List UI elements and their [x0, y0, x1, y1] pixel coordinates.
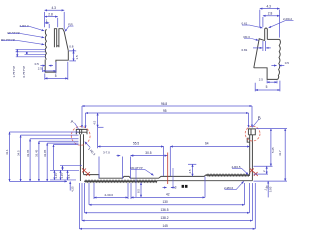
- scalloped right edge: [278, 39, 281, 79]
- dim 95: [85, 113, 87, 128]
- dim 64: [169, 147, 171, 177]
- dim 4.3 top: [260, 10, 280, 38]
- right wall: [250, 135, 253, 181]
- left stack dim 32.95: [47, 142, 78, 144]
- fin pitch extension lines: [16, 49, 46, 57]
- dim 96.8 top: [81, 106, 83, 128]
- svg-text:136.5: 136.5: [161, 208, 169, 212]
- svg-text:64: 64: [205, 141, 209, 145]
- extension lines mid web: [136, 168, 173, 197]
- dim 2.8: [262, 17, 264, 27]
- svg-text:5: 5: [266, 85, 268, 89]
- dim 41.7 right outer: [284, 129, 286, 182]
- svg-text:145: 145: [163, 224, 169, 228]
- svg-text:1.5: 1.5: [75, 55, 79, 60]
- left stack dim 33.65: [30, 138, 78, 140]
- svg-text:5: 5: [55, 74, 57, 78]
- dim 2 right: [254, 173, 269, 175]
- svg-text:130: 130: [163, 200, 169, 204]
- svg-text:34.5: 34.5: [16, 150, 20, 156]
- dim 4.3 top: [45, 12, 65, 30]
- svg-text:4.3: 4.3: [52, 6, 57, 10]
- dim 8.5 vertical small: [140, 183, 142, 198]
- right side stub top: [256, 128, 287, 130]
- right wall hook: [247, 138, 250, 142]
- red centre extension line: [167, 153, 169, 185]
- dim 4.5 small vertical: [97, 113, 99, 127]
- top chamfer F.R corner: [61, 29, 64, 32]
- dim 5.25 right: [254, 165, 273, 167]
- dim 136.5: [85, 183, 250, 213]
- svg-text:2.8: 2.8: [48, 13, 53, 17]
- left stack dim 41.1: [10, 131, 79, 133]
- dim 4.5b: [67, 170, 69, 180]
- svg-text:138.2: 138.2: [161, 216, 169, 220]
- svg-text:R0.25TYP: R0.25TYP: [1, 38, 15, 42]
- svg-text:4.3: 4.3: [267, 4, 272, 8]
- dim 30.5: [131, 155, 168, 157]
- left stack dim 33.45: [39, 140, 79, 142]
- dim 1.45: [60, 170, 62, 180]
- left stack dim 34.5: [21, 134, 79, 136]
- svg-text:55.5: 55.5: [133, 141, 139, 145]
- svg-text:2.5: 2.5: [259, 78, 264, 82]
- scalloped left edge: [45, 29, 46, 59]
- svg-text:3.95: 3.95: [269, 186, 273, 192]
- dim 5 bottom: [255, 81, 280, 92]
- weld marks right (red): [250, 168, 258, 176]
- dim 2.8: [57, 18, 59, 27]
- svg-text:2-R0.3: 2-R0.3: [20, 24, 29, 28]
- svg-text:0.75TYP: 0.75TYP: [22, 66, 26, 78]
- svg-text:1: 1: [46, 19, 48, 23]
- finger 1: [54, 29, 56, 48]
- svg-text:0.5: 0.5: [35, 62, 40, 66]
- finger: [265, 28, 268, 41]
- left slope edge: [254, 39, 265, 68]
- svg-text:8.5: 8.5: [137, 189, 141, 193]
- detail circle A: [71, 126, 90, 145]
- web top with steps: [84, 175, 207, 179]
- svg-text:32.95: 32.95: [43, 149, 47, 157]
- dim 55.5: [98, 127, 164, 176]
- dim 4.25 below: [69, 181, 71, 190]
- svg-text:2.5: 2.5: [38, 67, 43, 71]
- weld marks left (red): [82, 168, 90, 176]
- svg-text:A: A: [71, 119, 74, 124]
- small left dims rows: [60, 165, 82, 167]
- svg-text:42: 42: [166, 192, 170, 196]
- left stack bottom reference line: [10, 180, 68, 182]
- serrated web top right segment: [207, 174, 250, 176]
- svg-text:2-30.0: 2-30.0: [105, 193, 114, 197]
- web bottom straight right segment: [157, 180, 252, 182]
- dim 2.5 vertical: [188, 163, 196, 165]
- dim 42: [131, 196, 205, 198]
- svg-text:4.25: 4.25: [70, 186, 74, 192]
- right wall cap: [248, 129, 255, 135]
- svg-text:33.45: 33.45: [35, 149, 39, 157]
- dim 0.75TYP: [26, 52, 28, 55]
- dim 5 bottom: [45, 62, 68, 80]
- left wall: [80, 134, 83, 181]
- svg-text:96.8: 96.8: [161, 102, 167, 106]
- left stack dim small 6th: [54, 144, 79, 146]
- svg-text:33.65: 33.65: [26, 149, 30, 157]
- right bottom stub: [254, 180, 288, 182]
- svg-text:3.45: 3.45: [54, 173, 58, 179]
- detail circle B: [245, 126, 260, 141]
- svg-text:3-7.0: 3-7.0: [103, 151, 110, 155]
- svg-text:R0.5TYP: R0.5TYP: [8, 31, 20, 35]
- svg-text:4.5: 4.5: [92, 120, 96, 124]
- main profile: left wall cap: [76, 129, 87, 134]
- dim 1.75TYP: [16, 49, 18, 57]
- bottom step shelf: [254, 68, 278, 80]
- svg-text:0.8: 0.8: [69, 44, 74, 48]
- dim 130: [89, 183, 245, 205]
- dim 1: [48, 24, 50, 28]
- dim 1.5 vertical: [73, 51, 75, 61]
- svg-text:2.8: 2.8: [268, 12, 273, 16]
- top shelf right of finger: [267, 38, 279, 40]
- svg-text:30.5: 30.5: [145, 151, 151, 155]
- svg-text:0.5: 0.5: [285, 61, 290, 65]
- svg-text:4.5: 4.5: [67, 174, 71, 178]
- svg-text:5.25: 5.25: [271, 147, 275, 153]
- svg-text:95: 95: [163, 109, 167, 113]
- svg-text:1.45: 1.45: [60, 173, 64, 179]
- dim 3.95: [267, 181, 269, 197]
- svg-text:41.1: 41.1: [5, 149, 9, 155]
- finger 2: [57, 29, 61, 48]
- dim 145: [79, 183, 255, 229]
- dim 3.45: [53, 170, 55, 180]
- svg-text:0.81: 0.81: [242, 48, 248, 52]
- svg-text:2.5: 2.5: [188, 169, 192, 173]
- svg-text:41.7: 41.7: [278, 150, 282, 156]
- dim 138.2: [82, 183, 252, 221]
- svg-text:1.75TYP: 1.75TYP: [12, 66, 16, 78]
- serrated web bottom left segment: [85, 181, 158, 183]
- right step: [45, 51, 68, 72]
- right slope edge: [64, 31, 68, 50]
